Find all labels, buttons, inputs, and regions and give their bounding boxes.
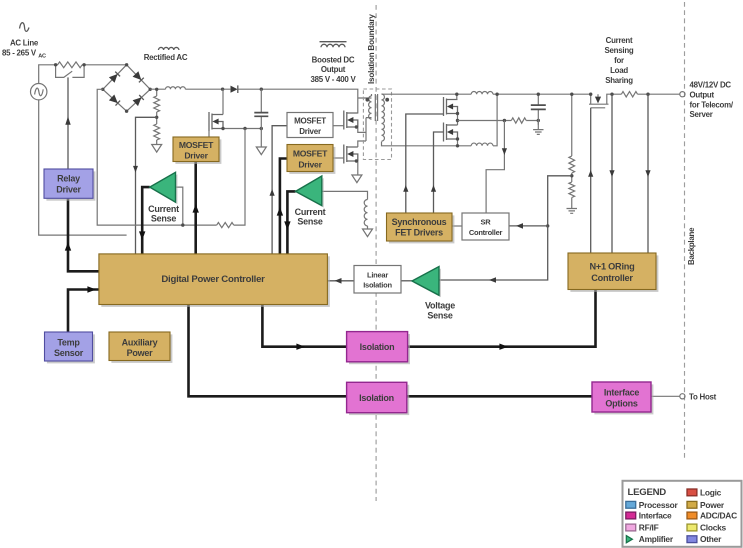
terminal 48V output xyxy=(680,92,685,97)
label auxiliary power xyxy=(122,337,158,358)
svg-text:Isolation Boundary: Isolation Boundary xyxy=(367,14,376,84)
wire Q5 gate riser xyxy=(434,132,444,213)
svg-text:Backplane: Backplane xyxy=(687,227,696,265)
wire bridge return + shunt path xyxy=(97,89,245,225)
temp sensor box xyxy=(45,332,95,363)
svg-text:Server: Server xyxy=(690,110,713,119)
svg-text:Power: Power xyxy=(127,348,154,358)
wire Q4 gate riser xyxy=(406,114,444,213)
wire amp2 output to controller xyxy=(287,191,295,254)
label 85-265V xyxy=(2,49,46,60)
resistor divider R2 (input sense bottom) xyxy=(156,112,158,124)
node shunt branch xyxy=(243,127,246,130)
wire Q4 drain xyxy=(456,94,459,125)
svg-text:Driver: Driver xyxy=(299,127,321,136)
transistor sync FET Q5 xyxy=(444,123,458,142)
ground (output divider) xyxy=(567,209,578,214)
svg-text:SR: SR xyxy=(481,218,492,227)
legend rf/if xyxy=(626,523,659,533)
resistor shunt R3 xyxy=(217,223,234,228)
svg-text:Sense: Sense xyxy=(151,214,177,224)
svg-text:Sense: Sense xyxy=(297,217,323,227)
node C2 top xyxy=(537,93,540,96)
svg-text:Linear: Linear xyxy=(367,271,388,280)
svg-text:N+1 ORing: N+1 ORing xyxy=(590,261,635,271)
isolation 2 box xyxy=(347,382,410,415)
svg-text:MOSFET: MOSFET xyxy=(179,140,214,150)
transistor primary low FET Q3 xyxy=(344,145,358,164)
node vsense split xyxy=(546,224,549,227)
wire rectified bus xyxy=(150,89,358,113)
ground (input divider) xyxy=(152,145,162,153)
svg-text:Current: Current xyxy=(295,207,326,217)
svg-text:Sensor: Sensor xyxy=(54,348,84,358)
capacitor C1 (boost output) xyxy=(254,89,268,147)
AC source V1 xyxy=(31,84,47,100)
svg-text:Other: Other xyxy=(700,534,722,544)
transistor boost FET Q1 xyxy=(209,112,223,131)
node sense right xyxy=(537,119,540,122)
node L-out xyxy=(221,88,224,91)
node Q1 source xyxy=(221,127,224,130)
label current sense 2 xyxy=(295,207,326,227)
node hot-right xyxy=(82,63,85,66)
node sense out xyxy=(646,93,649,96)
wire VS amp to linear isolation xyxy=(401,280,412,282)
ground (CT) xyxy=(363,229,373,237)
inductor L1 xyxy=(166,87,186,89)
ground (C2) xyxy=(537,121,539,130)
wire sense+ to ORing controller xyxy=(647,94,649,253)
resistor load share R7 xyxy=(621,92,637,97)
svg-text:Auxiliary: Auxiliary xyxy=(122,337,158,347)
svg-text:Temp: Temp xyxy=(57,337,80,347)
legend interface xyxy=(626,511,672,521)
label 48V output xyxy=(690,80,734,119)
MOSFET driver 2 box xyxy=(287,145,335,174)
node Q2 source xyxy=(355,125,358,128)
node bridge bottom xyxy=(125,110,128,113)
wire controller to isolation1 xyxy=(262,305,346,347)
svg-text:Isolation: Isolation xyxy=(359,393,394,403)
isolation boundary dashed line xyxy=(375,5,377,501)
svg-text:Sensing: Sensing xyxy=(605,46,634,55)
ground (C1) xyxy=(256,147,266,155)
MOSFET driver white box xyxy=(287,113,333,138)
svg-text:Clocks: Clocks xyxy=(700,523,727,533)
node sense left xyxy=(503,119,506,122)
wire Q2 source to transformer xyxy=(358,98,372,132)
wire secondary top bus xyxy=(392,93,680,95)
svg-text:for: for xyxy=(614,56,624,65)
transformer T1 xyxy=(363,89,391,160)
legend other xyxy=(687,534,722,544)
legend box xyxy=(623,481,742,547)
node bridge right xyxy=(149,88,152,91)
wire bus sense to ORing controller xyxy=(611,94,613,253)
svg-text:Controller: Controller xyxy=(591,273,633,283)
node L2 out xyxy=(495,93,498,96)
transistor sync FET Q4 xyxy=(444,97,458,116)
wire amp1 input xyxy=(176,187,183,225)
node sync top xyxy=(455,93,458,96)
node Q5 source xyxy=(456,137,459,140)
svg-text:To Host: To Host xyxy=(689,393,717,402)
node mid lower xyxy=(456,119,459,122)
wire white driver to Q2 gate xyxy=(333,125,344,127)
node cap bottom xyxy=(260,127,263,130)
wire Q5 source xyxy=(457,139,459,146)
svg-text:Driver: Driver xyxy=(184,150,208,160)
wire controller to MOSFET driver1 xyxy=(194,162,197,254)
node Q6 left xyxy=(589,93,592,96)
svg-text:Isolation: Isolation xyxy=(363,281,392,290)
svg-text:Sense: Sense xyxy=(427,311,453,321)
linear isolation box xyxy=(354,266,401,294)
svg-text:85 - 265 V: 85 - 265 V xyxy=(2,49,37,58)
svg-text:Sharing: Sharing xyxy=(605,76,633,85)
svg-text:Processor: Processor xyxy=(639,500,679,510)
node Q5 bus xyxy=(456,144,459,147)
wire relay coil drive xyxy=(67,77,69,169)
wire controller to MOSFET driver2 xyxy=(280,159,287,254)
wire secondary bottom bus xyxy=(392,94,498,146)
wire tan driver2 to Q3 gate xyxy=(333,157,344,159)
svg-text:Output: Output xyxy=(690,90,715,99)
node boost-out xyxy=(260,88,263,91)
wire white driver input xyxy=(272,126,287,254)
backplane dashed line xyxy=(684,2,686,458)
wire controller to isolation2 xyxy=(189,305,347,397)
resistor inrush xyxy=(58,62,83,68)
node divider tap out xyxy=(570,174,573,177)
wire Q1 gate xyxy=(208,131,210,137)
wire isolation1 to ORing controller xyxy=(408,290,596,347)
wire isolation2 to interface options xyxy=(407,395,592,398)
transistor primary high FET Q2 xyxy=(344,111,358,130)
svg-text:Options: Options xyxy=(605,398,637,408)
wire temp sensor to controller xyxy=(68,290,99,333)
digital power controller box xyxy=(99,254,330,307)
wire Q1 drain riser xyxy=(222,89,224,114)
wire to SR controller xyxy=(509,225,548,227)
svg-text:FET Drivers: FET Drivers xyxy=(395,227,443,237)
node secondary phase dot xyxy=(385,98,389,102)
inductor L3 (lower output) xyxy=(471,143,493,146)
label Boosted DC Output xyxy=(310,42,356,84)
capacitor C2 (output) xyxy=(531,94,546,125)
wire controller to relay driver xyxy=(68,198,99,271)
resistor output divider R5 xyxy=(571,94,573,156)
legend clocks xyxy=(687,523,727,533)
label voltage sense xyxy=(425,301,455,321)
svg-text:ADC/DAC: ADC/DAC xyxy=(700,511,737,521)
svg-text:Isolation: Isolation xyxy=(360,342,395,352)
amplifier voltage sense xyxy=(412,267,441,298)
N+1 ORing controller box xyxy=(568,253,658,292)
node primary phase dot xyxy=(366,98,370,102)
svg-text:48V/12V DC: 48V/12V DC xyxy=(690,80,732,89)
svg-text:Output: Output xyxy=(321,65,346,74)
legend logic xyxy=(687,487,722,497)
svg-text:Interface: Interface xyxy=(604,387,640,397)
wire divider tap to controller xyxy=(136,117,157,254)
wire Q3 drain to transformer xyxy=(358,141,366,147)
svg-text:Relay: Relay xyxy=(57,174,80,184)
wire AC return xyxy=(39,100,127,235)
wire linear isolation to controller xyxy=(327,280,354,282)
svg-text:Controller: Controller xyxy=(469,228,503,237)
svg-text:RF/IF: RF/IF xyxy=(639,523,659,533)
transistor ORing FET Q6 xyxy=(589,94,612,108)
amplifier current sense 2 xyxy=(296,176,324,208)
relay driver box xyxy=(44,169,95,201)
svg-text:Rectified AC: Rectified AC xyxy=(144,53,188,62)
label interface options xyxy=(604,387,640,408)
wire Q3 source to ground xyxy=(357,161,359,175)
inductor L2 (upper output) xyxy=(471,91,493,94)
node hot-left xyxy=(54,63,57,66)
svg-text:for Telecom/: for Telecom/ xyxy=(690,100,734,109)
wire voltage sense tap xyxy=(548,176,572,226)
wire to voltage sense amp xyxy=(439,226,547,280)
auxiliary power box xyxy=(109,332,172,363)
MOSFET driver 1 box xyxy=(173,137,221,164)
resistor output divider R6 xyxy=(571,173,573,182)
node bridge top xyxy=(125,63,128,66)
node Q3 source xyxy=(355,159,358,162)
legend adc/dac xyxy=(687,511,737,521)
svg-text:Logic: Logic xyxy=(700,487,722,497)
wire mid node to sense xyxy=(458,120,505,122)
svg-text:Driver: Driver xyxy=(56,185,81,195)
label MOSFET driver 2 xyxy=(293,148,328,169)
isolation 1 box xyxy=(347,332,410,365)
label Rectified AC xyxy=(144,47,188,62)
resistor divider R1 (input sense top) xyxy=(156,89,158,96)
node Q6 right xyxy=(610,93,613,96)
wire AC hot xyxy=(39,65,127,84)
svg-text:Synchronous: Synchronous xyxy=(392,217,447,227)
label MOSFET driver white xyxy=(294,117,326,137)
synchronous FET drivers box xyxy=(387,213,455,243)
interface options box xyxy=(592,382,653,414)
label Current Sensing for Load Sharing xyxy=(605,36,634,85)
wire amp1 output to controller xyxy=(142,187,150,254)
svg-text:Amplifier: Amplifier xyxy=(639,534,674,544)
label temp sensor xyxy=(54,337,84,358)
svg-text:MOSFET: MOSFET xyxy=(294,117,326,126)
label SR controller xyxy=(469,218,503,238)
wire Q6 gate to ORing controller xyxy=(590,108,592,253)
bridge rectifier D1-D4 xyxy=(103,65,150,111)
resistor sec sense R4 xyxy=(511,118,526,123)
inductor CT winding xyxy=(364,200,367,226)
wire interface options to host xyxy=(651,395,680,397)
legend processor xyxy=(626,500,679,510)
svg-text:Current: Current xyxy=(148,204,179,214)
label current sense 1 xyxy=(148,204,179,224)
svg-text:MOSFET: MOSFET xyxy=(293,148,328,158)
wire source rail xyxy=(223,128,261,130)
wire SR sense path xyxy=(486,121,504,214)
ground (Q3 source) xyxy=(352,175,362,183)
wire amp2 input + CT xyxy=(322,191,368,199)
relay switch S1 xyxy=(56,65,85,78)
legend amplifier xyxy=(626,534,674,544)
node bus divider xyxy=(570,93,573,96)
svg-text:Driver: Driver xyxy=(298,159,322,169)
terminal to host xyxy=(680,394,685,399)
svg-text:385 V - 400 V: 385 V - 400 V xyxy=(310,75,356,84)
svg-text:AC: AC xyxy=(38,54,46,60)
label relay driver xyxy=(56,174,81,195)
node amp1 tap xyxy=(181,223,184,226)
sine icon xyxy=(20,23,30,32)
node bridge left xyxy=(101,88,104,91)
svg-text:Voltage: Voltage xyxy=(425,301,455,311)
node mid upper xyxy=(456,112,459,115)
svg-text:Current: Current xyxy=(606,36,633,45)
label sync FET drivers xyxy=(392,217,447,238)
amplifier current sense 1 xyxy=(150,172,178,204)
diode boost D5 xyxy=(231,85,238,93)
svg-text:Boosted DC: Boosted DC xyxy=(312,55,355,64)
svg-text:Load: Load xyxy=(610,66,628,75)
svg-text:LEGEND: LEGEND xyxy=(628,487,667,498)
label MOSFET driver 1 xyxy=(179,140,214,161)
label N+1 ORing controller xyxy=(590,261,635,283)
node input-bus tap xyxy=(155,88,158,91)
svg-text:AC Line: AC Line xyxy=(10,38,39,47)
wire sync drivers to SR controller xyxy=(452,225,462,227)
legend power xyxy=(687,500,725,510)
svg-text:Interface: Interface xyxy=(639,511,672,521)
svg-text:Power: Power xyxy=(700,500,725,510)
label linear isolation xyxy=(363,271,392,290)
node divider tap xyxy=(155,116,158,119)
svg-text:Digital Power Controller: Digital Power Controller xyxy=(161,274,265,285)
SR controller box xyxy=(462,213,509,240)
